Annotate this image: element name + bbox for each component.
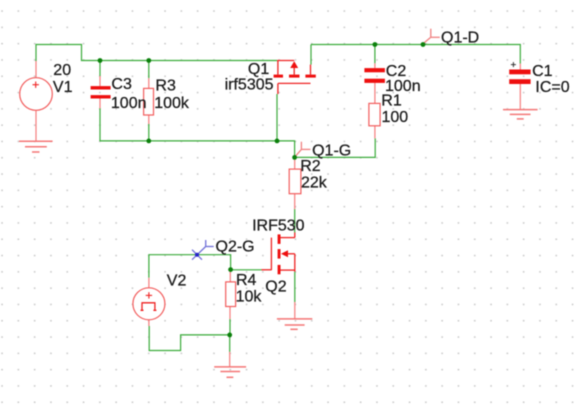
label C1 xyxy=(532,63,553,80)
pin R3 bottom xyxy=(148,115,150,124)
svg-text:100k: 100k xyxy=(154,95,190,112)
mosfet Q1 xyxy=(274,61,316,95)
svg-text:C3: C3 xyxy=(111,76,132,93)
pin V2 bottom xyxy=(148,320,150,326)
pin C1 top xyxy=(519,64,521,70)
wire C3 top drop xyxy=(99,61,101,77)
wire Q1 gate down xyxy=(276,94,278,141)
resistor R4 xyxy=(226,282,236,307)
capacitor C2 xyxy=(364,68,385,83)
voltage source V2 xyxy=(133,288,165,320)
node Q1-G xyxy=(312,142,351,159)
capacitor C3 xyxy=(91,86,111,98)
value 100n of C2 xyxy=(385,78,421,95)
ground below V1 xyxy=(19,141,53,152)
svg-text:Q2-G: Q2-G xyxy=(216,239,255,256)
wire top right rail to C1 xyxy=(311,45,520,64)
label V1 xyxy=(53,79,73,96)
svg-text:100: 100 xyxy=(382,109,409,126)
wire V2 top to R4 node xyxy=(149,255,231,278)
label R2 xyxy=(300,158,321,175)
node Q2-G xyxy=(216,239,255,256)
resistor R1 xyxy=(369,103,380,125)
probe Q1-G xyxy=(295,142,310,157)
voltage source V1 xyxy=(20,78,53,111)
wire V2 bottom loop xyxy=(149,326,230,351)
wire Q2 source down xyxy=(294,272,296,302)
wire Q1-G node to R1 bottom xyxy=(295,138,376,157)
wire R2 bottom to Q2 drain xyxy=(294,209,296,232)
svg-text:irf5305: irf5305 xyxy=(225,77,274,94)
value 10k of R4 xyxy=(236,289,263,306)
pin C1 to ground xyxy=(519,84,521,110)
value IRF530 of Q2 xyxy=(252,218,305,235)
probe Q1-D xyxy=(423,29,440,44)
junction node dots xyxy=(98,42,426,337)
svg-text:100n: 100n xyxy=(111,95,147,112)
value IC=0 of C1 xyxy=(535,79,569,96)
wire C3 bottom rail to Q1-G node xyxy=(100,108,295,157)
label Q2 xyxy=(265,279,286,296)
value 22k of R2 xyxy=(301,175,328,192)
wire R3 top xyxy=(148,61,150,79)
svg-text:Q1-D: Q1-D xyxy=(441,29,479,46)
svg-text:R1: R1 xyxy=(381,93,402,110)
value 100k of R3 xyxy=(154,95,190,112)
value 100 of R1 xyxy=(382,109,409,126)
pin C3 bottom xyxy=(99,99,101,109)
svg-text:R4: R4 xyxy=(236,272,257,289)
ground below R4 xyxy=(214,367,246,377)
value 100n of C3 xyxy=(111,95,147,112)
label R1 xyxy=(381,93,402,110)
svg-text:10k: 10k xyxy=(236,289,263,306)
pin C2 top xyxy=(374,63,376,68)
pin C3 top xyxy=(99,76,101,86)
resistor R2 xyxy=(289,169,301,194)
svg-text:IC=0: IC=0 xyxy=(535,79,569,96)
ground below C1 xyxy=(503,110,538,119)
svg-text:Q1-G: Q1-G xyxy=(312,142,351,159)
svg-text:20: 20 xyxy=(53,62,71,79)
pin R4 bottom xyxy=(229,307,231,320)
wire R4 node to ground xyxy=(229,335,231,352)
svg-text:IRF530: IRF530 xyxy=(252,218,305,235)
label V2 xyxy=(167,272,187,289)
label C2 xyxy=(386,63,407,80)
label R3 xyxy=(155,77,176,94)
value 20 of V1 xyxy=(53,62,71,79)
wire Q1 drain up xyxy=(310,45,312,65)
pin ground lead below R4 node xyxy=(229,352,231,367)
wire R3 bottom xyxy=(148,124,150,141)
svg-text:R2: R2 xyxy=(300,158,321,175)
pin C2 to R1 xyxy=(374,83,376,104)
wire C2 top drop xyxy=(374,45,376,64)
pin V1 bottom xyxy=(35,110,37,141)
wire R4 bottom xyxy=(229,319,231,335)
svg-text:22k: 22k xyxy=(301,175,328,192)
label R4 xyxy=(236,272,257,289)
probe Q2-G xyxy=(192,240,214,260)
node Q1-D xyxy=(441,29,479,46)
resistor R3 xyxy=(144,88,154,115)
pin R2 bottom xyxy=(294,194,296,209)
wire Q2 gate to R4 node xyxy=(231,269,262,271)
svg-text:V1: V1 xyxy=(53,79,73,96)
svg-text:V2: V2 xyxy=(167,272,187,289)
pin R3 top xyxy=(148,78,150,88)
label C3 xyxy=(111,76,132,93)
pin V1 top xyxy=(35,61,37,78)
mosfet Q2 xyxy=(262,233,295,275)
pin V2 top xyxy=(148,278,150,288)
svg-text:Q2: Q2 xyxy=(265,279,286,296)
pin R2 top xyxy=(294,157,296,169)
pin R4 top xyxy=(229,270,231,282)
ground below Q2 xyxy=(277,319,312,329)
capacitor C1 xyxy=(509,62,530,84)
svg-text:R3: R3 xyxy=(155,77,176,94)
wire V1 top to rail xyxy=(36,45,277,62)
pin Q2 source to ground xyxy=(294,302,296,319)
pin R1 bottom xyxy=(374,126,376,139)
value irf5305 of Q1 xyxy=(225,77,274,94)
label Q1 xyxy=(248,61,269,78)
svg-text:C1: C1 xyxy=(532,63,553,80)
